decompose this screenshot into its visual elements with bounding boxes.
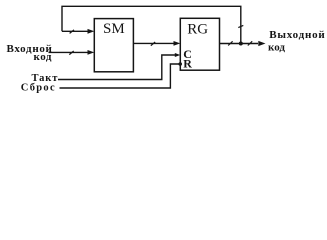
block RG (register) — [180, 18, 219, 70]
svg-text:Сброс: Сброс — [21, 83, 56, 94]
junction dot at pin R — [178, 62, 182, 66]
svg-text:R: R — [183, 57, 192, 71]
arrowhead into SM (input code) — [88, 50, 95, 55]
wire feedback loop (output node up, across top, down to SM input) — [62, 6, 241, 43]
slash tick on SM-RG wire — [151, 42, 155, 46]
svg-text:RG: RG — [187, 21, 208, 37]
arrowhead into RG — [174, 41, 181, 46]
svg-text:код: код — [268, 41, 285, 53]
wire Такт to pin C — [58, 55, 176, 80]
block SM (accumulator) — [94, 19, 133, 72]
wire input code to SM — [49, 51, 89, 53]
wire feedback into SM input — [62, 30, 89, 32]
junction node dot on output wire — [239, 42, 243, 46]
wire RG output — [220, 43, 259, 45]
slash tick on feedback riser — [238, 25, 243, 27]
node Выходной код label — [268, 29, 326, 53]
slash tick on feedback wire — [70, 30, 74, 34]
slash tick on output wire left of node — [228, 41, 232, 45]
arrowhead into pin C — [175, 53, 181, 57]
wire SM output to RG input — [133, 42, 174, 44]
arrowhead output — [258, 41, 265, 46]
slash tick on output wire right of node — [248, 41, 252, 45]
wire Сброс to pin R — [60, 64, 181, 88]
svg-text:SM: SM — [103, 21, 125, 37]
node Входной код label — [7, 43, 53, 63]
svg-text:Выходной: Выходной — [269, 29, 325, 41]
slash tick on input code wire — [69, 51, 73, 55]
arrowhead into SM (feedback) — [88, 29, 95, 34]
